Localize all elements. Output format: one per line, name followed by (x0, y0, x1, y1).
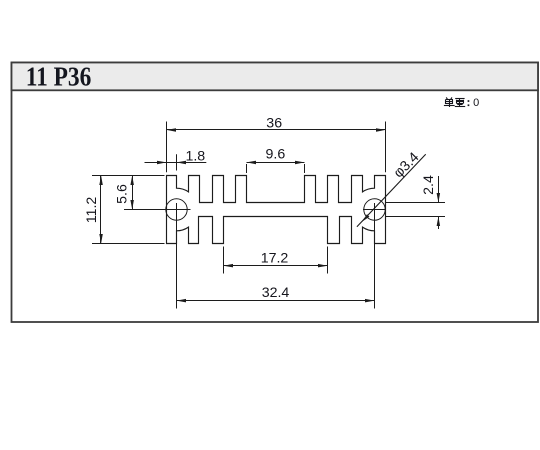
svg-text:5.6: 5.6 (114, 184, 130, 204)
svg-text:11 P36: 11 P36 (26, 61, 92, 92)
svg-text:36: 36 (266, 116, 282, 132)
svg-text:17.2: 17.2 (261, 250, 289, 266)
svg-text:0: 0 (473, 97, 479, 109)
svg-text:2.4: 2.4 (421, 175, 437, 195)
svg-text:9.6: 9.6 (266, 146, 286, 162)
svg-text:32.4: 32.4 (262, 285, 290, 301)
svg-text:1.8: 1.8 (185, 149, 205, 165)
svg-text:11.2: 11.2 (84, 197, 100, 224)
